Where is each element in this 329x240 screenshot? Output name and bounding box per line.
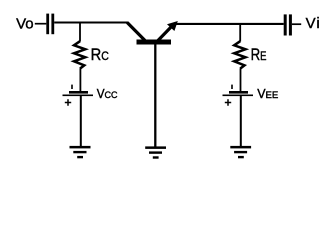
svg-text:Vi: Vi: [306, 15, 321, 32]
transistor Q1 emitter arrowhead: [167, 21, 178, 31]
ground G1 bar3: [77, 156, 83, 158]
svg-text:RC: RC: [91, 46, 109, 64]
battery VCC top plate (short thick): [69, 91, 88, 94]
wire right branch stub (rail to RE): [239, 24, 241, 42]
resistor RE: [234, 41, 245, 68]
svg-text:Vo: Vo: [16, 16, 34, 33]
svg-text:VEE: VEE: [257, 87, 278, 101]
wire battery VEE to ground: [240, 96, 242, 146]
ground G1 bar1: [70, 146, 91, 149]
capacitor C1 right plate: [51, 14, 54, 35]
battery VCC bottom plate (long thin): [63, 95, 94, 97]
ground G2 bar1: [145, 146, 166, 149]
wire left branch stub (rail to RC): [79, 23, 81, 42]
battery VCC minus tick: [71, 85, 73, 89]
ground G3 bar3: [238, 156, 244, 158]
resistor RC: [74, 41, 85, 68]
wire Vi lead: [292, 23, 301, 25]
wire top-left rail: [54, 22, 128, 24]
wire Vo lead: [35, 23, 47, 25]
battery VEE plus sign: [225, 99, 231, 105]
ground G3 bar1: [230, 146, 251, 149]
battery VEE top plate (short thick): [229, 91, 248, 94]
transistor Q1 emitter lead: [158, 26, 173, 42]
transistor Q1 collector lead (diagonal from rail to base bar): [127, 23, 145, 41]
capacitor C2 left plate: [284, 14, 287, 35]
battery VEE bottom plate (long thin): [223, 95, 254, 97]
wire top-right rail: [177, 23, 284, 25]
wire base stem to ground: [154, 44, 156, 147]
wire battery VCC to ground: [80, 96, 82, 146]
ground G2 bar2: [149, 151, 162, 153]
ground G1 bar2: [73, 151, 86, 153]
capacitor C2 right plate: [289, 14, 292, 35]
capacitor C1 left plate: [46, 14, 49, 35]
battery VCC plus sign: [65, 99, 71, 105]
ground G3 bar2: [234, 151, 247, 153]
svg-text:RE: RE: [251, 45, 267, 64]
wire RE to battery VEE: [240, 68, 242, 91]
ground G2 bar3: [153, 156, 159, 158]
transistor Q1 base bar: [137, 40, 172, 45]
battery VEE minus tick: [231, 85, 233, 89]
wire RC to battery VCC: [79, 68, 81, 91]
svg-text:VCC: VCC: [97, 87, 118, 101]
